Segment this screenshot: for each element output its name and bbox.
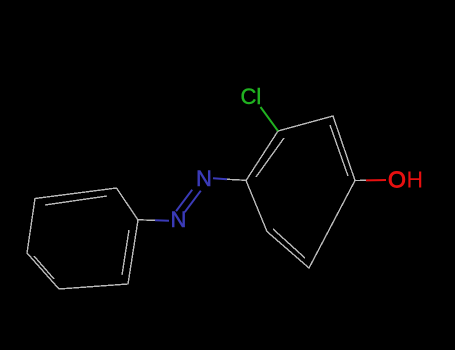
wire azo N to right ring (nitrogen half) <box>213 178 227 179</box>
svg-text:N: N <box>171 207 187 232</box>
svg-text:N: N <box>196 166 212 191</box>
right ring inner double bond (right edge) <box>330 125 348 176</box>
hydroxyl bond (carbon half) <box>355 179 366 181</box>
left benzene ring outline <box>27 188 138 289</box>
azo N=N double bond line 1 <box>176 190 192 211</box>
right ring inner double bond (bottom-left edge) <box>273 229 305 258</box>
svg-text:H: H <box>407 167 424 193</box>
right ring inner double bond (upper-left edge) <box>256 138 284 177</box>
wire ring A to azo N (nitrogen half) <box>155 219 169 221</box>
azo N=N double bond line 2 <box>185 191 201 213</box>
wire azo N to right ring (carbon half) <box>227 179 246 180</box>
hydroxyl bond (oxygen half) <box>366 179 386 181</box>
svg-text:O: O <box>388 167 406 193</box>
left ring inner double bond (lower-left edge) <box>34 256 54 279</box>
svg-text:Cl: Cl <box>241 84 262 109</box>
left ring inner double bond (top edge) <box>45 196 107 205</box>
right benzene ring outline <box>246 116 355 268</box>
left ring inner double bond (right edge) <box>122 230 129 275</box>
wire ring A to azo N (carbon half) <box>138 219 155 222</box>
chlorine bond <box>261 107 279 131</box>
